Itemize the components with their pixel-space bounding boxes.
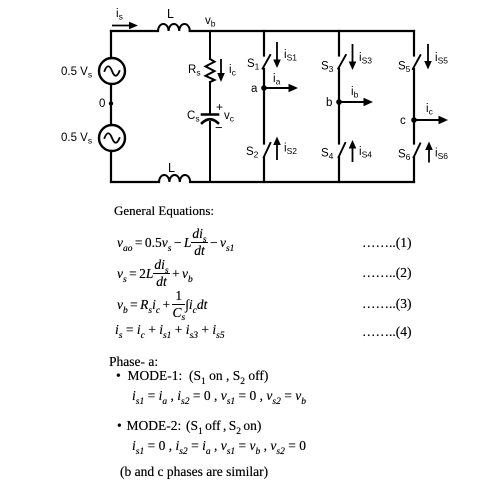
- MODE-2 equation: [132, 438, 306, 454]
- wire leg3 middle (through node c): [413, 69, 415, 144]
- svg-text:S2: S2: [246, 146, 259, 160]
- svg-text:iS3: iS3: [359, 52, 372, 66]
- switch S1 blade: [263, 55, 271, 69]
- source V1 sine: [105, 66, 120, 76]
- MODE-2 line: [117, 418, 261, 434]
- svg-text:c: c: [400, 115, 406, 127]
- footnote: [120, 464, 268, 480]
- svg-text:iS1: iS1: [284, 49, 297, 63]
- svg-text:L: L: [168, 161, 175, 175]
- svg-text:a: a: [251, 83, 258, 95]
- switch S4 blade: [339, 143, 346, 157]
- svg-text:Rs: Rs: [188, 64, 201, 78]
- capacitor Cs top plate: [202, 113, 218, 116]
- wire leg2 upper: [338, 31, 340, 56]
- svg-text:S1: S1: [247, 58, 260, 72]
- svg-text:ib: ib: [351, 86, 359, 100]
- arrow iS2: [273, 137, 281, 161]
- svg-text:iS2: iS2: [284, 143, 297, 157]
- wire bottom bus left segment: [111, 181, 159, 183]
- svg-text:+: +: [216, 100, 223, 114]
- wire leg3 lower: [413, 158, 415, 183]
- svg-text:S5: S5: [398, 61, 411, 75]
- arrow iS4: [349, 140, 357, 162]
- wire capacitor to bottom bus: [209, 122, 211, 182]
- wire between sources: [110, 84, 112, 125]
- MODE-1 line: [116, 368, 268, 384]
- wire leg2 lower: [338, 158, 340, 183]
- svg-text:is: is: [116, 8, 123, 22]
- svg-text:0: 0: [99, 98, 105, 110]
- svg-text:vc: vc: [224, 110, 235, 124]
- arrow ia: [264, 84, 298, 92]
- inductor L bottom: [159, 175, 190, 182]
- svg-text:b: b: [326, 97, 332, 109]
- arrow is: [112, 22, 138, 30]
- switch S2 blade: [264, 143, 271, 157]
- wire middle branch top: [209, 31, 211, 59]
- wire leg2 middle (through node b): [338, 69, 340, 144]
- svg-text:S4: S4: [321, 148, 334, 162]
- equation 3: [117, 291, 207, 321]
- wire bottom bus right segment: [190, 181, 414, 183]
- equation 1: [117, 229, 234, 259]
- equation 4: [115, 322, 225, 338]
- source V2 circle: [99, 125, 125, 151]
- inductor L top: [158, 24, 190, 31]
- arrow iS6: [425, 142, 433, 163]
- wire leg3 upper: [413, 31, 415, 56]
- text: General Equations heading: [114, 203, 214, 219]
- node a dot: [261, 85, 267, 91]
- arrow iS5: [424, 44, 432, 70]
- node b dot: [336, 99, 342, 105]
- arrow iS1: [273, 42, 281, 68]
- Phase-a heading: [109, 354, 158, 370]
- svg-text:0.5 Vs: 0.5 Vs: [61, 132, 92, 146]
- svg-text:S6: S6: [398, 149, 411, 163]
- svg-text:iS6: iS6: [435, 148, 448, 162]
- source V2 sine: [105, 133, 120, 143]
- circuit schematic: [0, 0, 480, 200]
- arrow ic (Rs branch): [217, 59, 225, 82]
- equation 2: [117, 260, 193, 290]
- node 0 dot: [109, 101, 113, 105]
- svg-text:L: L: [167, 7, 174, 21]
- capacitor Cs bottom curved plate: [202, 119, 218, 123]
- source V1 circle: [99, 58, 125, 84]
- svg-text:ic: ic: [229, 64, 237, 78]
- svg-text:ic: ic: [426, 103, 434, 117]
- resistor Rs zigzag: [206, 59, 215, 82]
- wire left vertical bottom: [110, 151, 112, 182]
- wire top bus left segment: [111, 30, 158, 32]
- arrow iS3: [349, 44, 357, 70]
- switch S6 blade: [414, 144, 421, 158]
- arrow ic output: [414, 116, 448, 124]
- wire left vertical top: [110, 31, 112, 58]
- svg-text:vb: vb: [205, 15, 216, 29]
- switch S5 blade: [413, 55, 421, 69]
- svg-text:S3: S3: [321, 61, 334, 75]
- node c dot: [411, 117, 417, 123]
- svg-text:−: −: [215, 120, 223, 135]
- svg-text:iS4: iS4: [359, 146, 372, 160]
- wire resistor to capacitor: [209, 82, 211, 113]
- wire leg1 upper: [263, 31, 265, 56]
- svg-text:iS5: iS5: [435, 52, 448, 66]
- wire leg1 lower: [263, 158, 265, 183]
- wire leg1 middle (through node a): [263, 69, 265, 144]
- arrow ib: [339, 98, 373, 106]
- svg-text:ia: ia: [273, 73, 281, 87]
- svg-text:0.5 Vs: 0.5 Vs: [61, 66, 92, 80]
- MODE-1 equation: [132, 388, 306, 404]
- switch S3 blade: [338, 55, 346, 69]
- wire top bus right segment: [190, 30, 414, 32]
- svg-text:Cs: Cs: [187, 110, 200, 124]
